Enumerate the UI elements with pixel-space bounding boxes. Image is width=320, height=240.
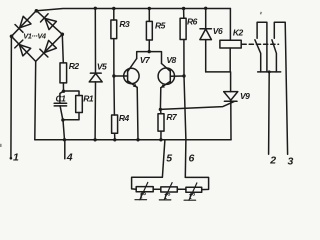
wire dashed link K2 to contacts bbox=[242, 43, 279, 45]
wire terminal 2 drop bbox=[268, 72, 271, 154]
contact K2.1 blade bbox=[255, 40, 261, 72]
wire speck artifact left edge bbox=[0, 144, 2, 147]
diode V3 (bottom-left arm) bbox=[15, 40, 31, 56]
node bus junction C1R1 bbox=[63, 138, 66, 141]
svg-text:R3: R3 bbox=[119, 19, 130, 29]
wire R1 to lower junction bbox=[63, 113, 79, 120]
resistor R3 bbox=[111, 20, 117, 39]
wire sensor left bracket bbox=[132, 177, 163, 189]
thermistor Rt1 bbox=[136, 187, 153, 192]
svg-text:V8: V8 bbox=[166, 55, 176, 65]
node rail junction V6 bbox=[204, 7, 207, 10]
svg-text:6: 6 bbox=[189, 153, 195, 165]
resistor R2 bbox=[60, 63, 67, 83]
svg-text:V6: V6 bbox=[213, 26, 223, 36]
wire base node to R4 bbox=[113, 76, 116, 115]
svg-text:V1···V4: V1···V4 bbox=[23, 31, 47, 40]
svg-text:t°: t° bbox=[140, 191, 146, 201]
node V7 base junction bbox=[112, 74, 115, 77]
wire R4 to bus bbox=[114, 133, 116, 140]
node rail junction R5 bbox=[148, 7, 151, 10]
resistor R6 bbox=[180, 18, 186, 39]
wire V6 to node A bbox=[205, 40, 207, 72]
contact K2.2 blade bbox=[272, 40, 277, 72]
thermistor Rt1 strike bbox=[135, 182, 148, 199]
svg-text:t°: t° bbox=[164, 191, 170, 201]
svg-text:V9: V9 bbox=[240, 91, 250, 101]
node top vertex bbox=[35, 9, 39, 13]
wire C1 to lower junction bbox=[60, 106, 63, 120]
wire R7 to bus bbox=[160, 131, 162, 140]
wire V7 emitter to bus bbox=[136, 87, 139, 140]
wire junction to R1 bbox=[64, 91, 80, 96]
wire terminal 5 drop bbox=[162, 140, 165, 177]
wire K2 to node A bbox=[229, 48, 231, 72]
wire terminal 6 column bbox=[184, 76, 186, 177]
wire bottom bus bbox=[35, 139, 231, 141]
wire lower junction to bottom bus bbox=[63, 120, 65, 140]
wire rail to R3 bbox=[113, 9, 115, 21]
node bus junction V7 emitter bbox=[136, 138, 139, 141]
contact K2.2 fixed bbox=[274, 22, 287, 154]
wire rail to R6 bbox=[183, 9, 185, 19]
svg-text:V5: V5 bbox=[97, 61, 107, 71]
relay coil K2 bbox=[220, 40, 241, 48]
wire rail corner to K2 bbox=[229, 9, 231, 41]
node bus junction V5 bbox=[93, 138, 96, 141]
wire V9 gate bbox=[160, 101, 234, 109]
wire R2 to junction bbox=[62, 83, 64, 91]
resistor R5 bbox=[146, 21, 152, 40]
node rail junction V5 bbox=[94, 7, 97, 10]
wire R3 to V7 base node bbox=[113, 39, 115, 76]
resistor R1 bbox=[76, 96, 83, 113]
svg-text:V7: V7 bbox=[140, 55, 151, 65]
wire Rt1 to Rt2 bbox=[153, 188, 161, 190]
svg-text:R4: R4 bbox=[119, 113, 130, 123]
wire rail to V6 bbox=[205, 8, 207, 28]
node rail junction R3 bbox=[112, 7, 115, 10]
zener diode V5 bbox=[89, 73, 102, 82]
svg-text:K2: K2 bbox=[233, 28, 244, 38]
node collector tee junction bbox=[148, 50, 151, 53]
wire bridge bottom to bus bbox=[34, 61, 37, 139]
wire collector tee bbox=[137, 52, 162, 64]
capacitor C1 bbox=[54, 103, 66, 106]
wire Rt2 to Rt3 bbox=[177, 188, 186, 190]
transistor V7 bbox=[114, 59, 139, 88]
wire contacts bottom joiner bbox=[258, 71, 281, 73]
thermistor Rt3 strike bbox=[184, 183, 197, 200]
svg-text:t°: t° bbox=[189, 191, 195, 201]
wire R6 to V8 base node bbox=[183, 40, 185, 77]
svg-text:R5: R5 bbox=[155, 20, 166, 30]
thermistor Rt3 bbox=[186, 187, 202, 192]
node bus junction R4 bbox=[113, 138, 116, 141]
bridge rectifier V1-V4 diamond bbox=[11, 11, 62, 62]
wire node to R7 bbox=[159, 109, 162, 113]
wire sensor right bracket bbox=[185, 177, 208, 189]
wire junction to C1 bbox=[60, 91, 64, 103]
svg-text:R2: R2 bbox=[69, 61, 80, 71]
thermistor Rt2 strike bbox=[159, 183, 172, 200]
thyristor V9 bbox=[224, 92, 238, 102]
svg-text:1: 1 bbox=[13, 152, 19, 164]
svg-text:R7: R7 bbox=[166, 112, 178, 122]
wire V9 cathode to bus bbox=[230, 101, 232, 140]
resistor R4 bbox=[112, 115, 118, 133]
wire node A horizontal bbox=[206, 71, 231, 73]
diode V4 (bottom-right arm) bbox=[40, 40, 57, 57]
svg-text:4: 4 bbox=[66, 152, 73, 164]
node R2 bottom junction bbox=[62, 90, 65, 93]
svg-text:C1: C1 bbox=[56, 93, 67, 103]
wire right vertex to R2 bbox=[62, 34, 63, 63]
wire terminal 1 drop bbox=[10, 36, 13, 159]
wire top positive rail bbox=[37, 9, 231, 11]
node C1/R1 lower junction bbox=[61, 118, 64, 121]
wire terminal 4 drop bbox=[64, 140, 66, 159]
diode V6 bbox=[200, 29, 212, 40]
svg-text:3: 3 bbox=[288, 156, 294, 168]
svg-text:5: 5 bbox=[166, 153, 172, 165]
wire V5 to bus bbox=[94, 82, 96, 140]
contact K2.1 fixed bbox=[257, 22, 267, 72]
svg-text:R6: R6 bbox=[187, 17, 198, 27]
node right vertex bbox=[61, 33, 65, 37]
wire rail to V5 bbox=[94, 8, 96, 73]
diode V1 (top-left arm) bbox=[15, 16, 31, 32]
wire rail to R5 bbox=[148, 9, 150, 22]
wire V8 emitter to R7 node bbox=[159, 88, 161, 110]
node terminal 1 end blob bbox=[10, 157, 13, 160]
svg-text:2: 2 bbox=[269, 155, 276, 167]
wire speck artifact near contact top bbox=[260, 12, 262, 15]
thermistor Rt2 bbox=[161, 187, 178, 192]
transistor V8 (mirrored) bbox=[158, 64, 184, 88]
node R7 top junction bbox=[159, 108, 162, 111]
resistor R7 bbox=[158, 114, 164, 131]
node joiner junction bbox=[268, 70, 271, 73]
wire node A to V9 bbox=[230, 72, 232, 92]
node left vertex bbox=[10, 35, 14, 39]
wire R5 to collector tee bbox=[148, 40, 150, 52]
node V8 base junction bbox=[182, 74, 185, 77]
node rail junction R6 bbox=[182, 7, 185, 10]
svg-text:R1: R1 bbox=[83, 94, 94, 104]
node bus junction R7 bbox=[159, 138, 162, 141]
diode V2 (top-right arm) bbox=[41, 14, 57, 30]
